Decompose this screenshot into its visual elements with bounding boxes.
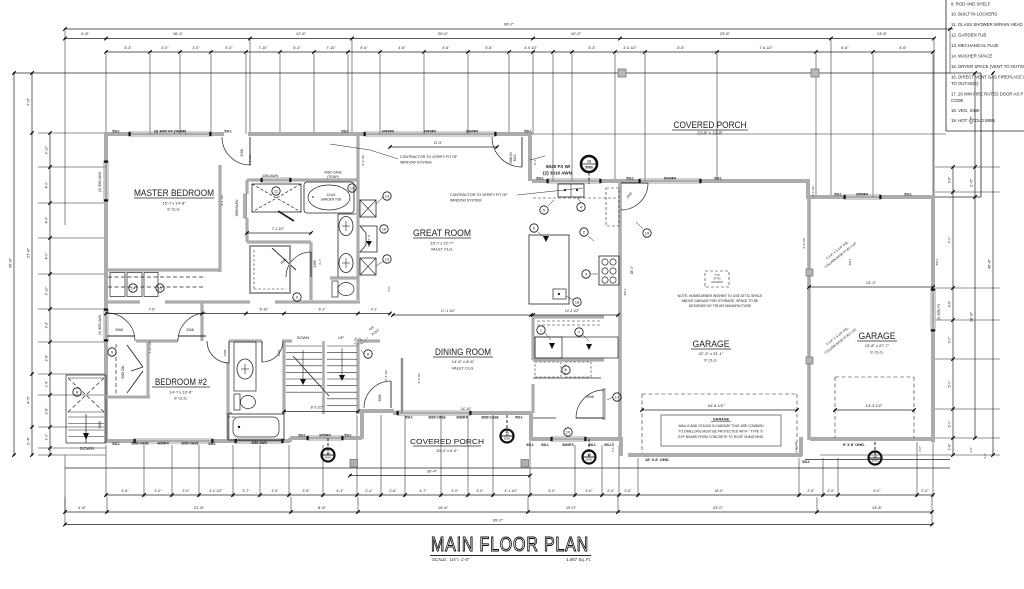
svg-text:24'-8 1/2": 24'-8 1/2" [708,403,725,408]
svg-text:16. DIRECT VENT GAS FIREPLACE: 16. DIRECT VENT GAS FIREPLACE ( [951,75,1024,80]
garage1 door dashed opening [642,393,797,395]
svg-text:9' CLG.: 9' CLG. [870,350,883,355]
svg-text:2468: 2468 [277,349,281,356]
hall dimension row [106,313,390,315]
svg-text:2'-0": 2'-0" [969,178,974,187]
dining south wall with windows [393,411,398,415]
dining dimension row [393,314,531,316]
svg-text:GARAGE: GARAGE [713,418,730,422]
svg-text:5/8-1: 5/8-1 [224,130,232,134]
kitchen callouts [540,206,548,214]
svg-text:13'-8": 13'-8" [877,31,888,36]
door bath2 2468 [261,341,263,362]
svg-text:5060: 5060 [504,437,511,441]
right dimension total [992,73,994,455]
svg-text:4'-1 1/2": 4'-1 1/2" [504,489,518,493]
svg-text:2'-6": 2'-6" [389,489,397,493]
window (3) 3050FX east [930,290,932,330]
svg-text:18'-0": 18'-0" [714,489,724,493]
master bath north wall [247,178,262,181]
stair south wall jog [360,411,364,439]
svg-text:5'-9 1/2": 5'-9 1/2" [361,155,365,166]
svg-text:9'-1 1/2": 9'-1 1/2" [220,195,224,206]
svg-text:9. ROD AND SHELF: 9. ROD AND SHELF [951,2,991,7]
door hall left 3068 [107,335,135,337]
svg-text:13'-3": 13'-3" [866,280,877,285]
right dimension tier 2 [974,73,976,438]
exterior wall top great room [495,132,532,136]
garage2 north wall [808,195,845,199]
svg-text:2868 BARN: 2868 BARN [235,199,239,217]
svg-text:3'-0 1/2": 3'-0 1/2" [623,46,637,50]
master shower 11 [252,184,301,212]
garage apron line [805,459,950,461]
garage wall jog between garage doors [799,437,803,456]
porch post 1 [618,69,626,77]
svg-text:13: 13 [505,432,509,436]
wall entry east jog [528,136,532,181]
svg-text:4050 AWN: 4050 AWN [251,441,267,445]
svg-text:(TEMP): (TEMP) [327,175,339,179]
east exterior wall garage2 [931,195,935,290]
svg-text:8'-3 1/2": 8'-3 1/2" [311,406,324,410]
svg-text:3068: 3068 [240,149,244,157]
svg-text:CONTRACTOR TO VERIFY FIT OF: CONTRACTOR TO VERIFY FIT OF [450,193,508,197]
svg-text:5060: 5060 [325,456,332,460]
svg-text:6'-4": 6'-4" [293,46,301,50]
porch south dimension 30-4 [350,475,530,477]
hose bib stairs [327,438,329,455]
mud door wall [602,388,605,420]
svg-text:19'-6": 19'-6" [438,505,449,510]
garage2 north jog [806,181,810,199]
svg-text:9'-0": 9'-0" [873,489,881,493]
garden tub 12 [304,182,354,213]
bottom dimension tier A [106,494,933,496]
svg-text:2'-0": 2'-0" [921,489,929,493]
svg-text:9' CLG.: 9' CLG. [167,207,180,212]
svg-text:2'-0": 2'-0" [948,420,952,428]
window (3) 3050 AWN west [103,162,105,200]
dining half wall [401,358,404,413]
wall great room west [356,134,359,300]
svg-text:3068: 3068 [186,328,194,332]
svg-text:5/8-1: 5/8-1 [904,193,912,197]
bottom extension lines [105,445,107,497]
svg-text:6'-4 1/2": 6'-4 1/2" [384,370,388,381]
svg-text:13: 13 [873,454,877,458]
mechanical flue 13 [581,156,597,172]
svg-text:7'-10": 7'-10" [258,46,268,50]
notes panel border [945,0,947,131]
svg-text:5060: 5060 [586,458,593,462]
roof overhang line [14,72,981,74]
svg-text:14'-6" x 8'-6": 14'-6" x 8'-6" [452,359,475,364]
laundry callout 17 [613,393,621,401]
svg-text:5'-3": 5'-3" [588,46,596,50]
svg-text:4060 CASE: 4060 CASE [324,171,342,175]
svg-text:3'-5": 3'-5" [302,489,310,493]
svg-text:15'-7 x 14'-8": 15'-7 x 14'-8" [162,201,186,206]
svg-text:21'-8": 21'-8" [194,505,205,510]
svg-text:10'-3 1/2": 10'-3 1/2" [565,309,580,313]
svg-text:12: 12 [350,185,355,190]
svg-text:3'-3": 3'-3" [45,321,49,329]
svg-text:45'-8": 45'-8" [987,258,992,269]
svg-text:TO DWELLING MUST BE PROTECTED: TO DWELLING MUST BE PROTECTED WITH " TYP… [679,430,764,434]
svg-text:15. DRYER SPACE (VENT TO OUTSI: 15. DRYER SPACE (VENT TO OUTSIDE [951,64,1024,69]
svg-text:TO OUTSIDE): TO OUTSIDE) [951,81,979,86]
svg-text:9' CLG.: 9' CLG. [704,358,717,363]
svg-text:4'-6": 4'-6" [121,489,129,493]
stair south wall with window 3050FX [290,436,308,440]
svg-text:3'-6": 3'-6" [948,300,952,308]
svg-text:1'-6": 1'-6" [948,443,952,451]
hose bib mud [588,439,590,457]
svg-text:ABOVE GARAGE FOR STORAGE. SPAC: ABOVE GARAGE FOR STORAGE. SPACE TO BE [682,299,760,303]
svg-text:CONTRACTOR TO VERIFY FIT OF: CONTRACTOR TO VERIFY FIT OF [400,155,458,159]
svg-text:2'-8": 2'-8" [45,407,49,415]
svg-text:MASTER BEDROOM: MASTER BEDROOM [134,188,214,199]
svg-text:5'-6": 5'-6" [360,46,368,50]
svg-text:1'-6": 1'-6" [983,453,987,459]
water closet callout 9 [293,293,301,301]
svg-text:13'-3 1/2": 13'-3 1/2" [866,403,883,408]
west exterior wall [104,132,108,162]
svg-text:2'-6": 2'-6" [533,159,537,165]
svg-text:23'-8": 23'-8" [720,31,731,36]
svg-text:13'-8" x 27'-7": 13'-8" x 27'-7" [865,343,890,348]
door bedroom2 2468 [228,341,230,363]
svg-text:4'-0": 4'-0" [45,216,49,224]
svg-text:5'-0": 5'-0" [948,380,952,388]
bedroom2 north wall [136,339,178,342]
svg-text:5/8-1: 5/8-1 [848,258,852,265]
garage note box [661,415,781,446]
svg-text:13: 13 [326,451,330,455]
svg-text:28'-8": 28'-8" [969,311,974,322]
svg-text:7'-8": 7'-8" [149,308,157,312]
svg-text:VAULT CLG.: VAULT CLG. [431,247,454,252]
svg-text:5/8-1: 5/8-1 [298,434,306,438]
dimension tier 1 total 99'-2" [65,28,953,30]
svg-text:2'-0": 2'-0" [45,433,49,441]
hose bib porch left [506,415,508,436]
window 6040FX porch wall [640,178,700,180]
stair east wall [356,339,359,414]
door hall right 3068 [178,335,206,337]
svg-text:3050FX: 3050FX [856,193,869,197]
svg-text:3'-0": 3'-0" [161,46,169,50]
post 4x4 note [355,338,361,344]
bath2 tub wall [226,412,232,414]
svg-text:5/8-1: 5/8-1 [714,177,722,181]
svg-text:16'-4": 16'-4" [173,31,184,36]
svg-text:2'-1": 2'-1" [371,308,379,312]
svg-text:5'-3": 5'-3" [124,46,132,50]
svg-text:5'-3": 5'-3" [225,46,233,50]
window 6040FX kitchen [548,178,600,180]
svg-text:DOWN: DOWN [297,335,310,340]
master closet shelves [108,276,204,278]
svg-text:5/8-1: 5/8-1 [526,443,534,447]
top extension lines [105,54,107,134]
svg-text:5/8-1: 5/8-1 [536,177,544,181]
svg-text:5/8-1: 5/8-1 [604,443,612,447]
svg-text:99'-2": 99'-2" [504,22,515,27]
mud lockers 1 7 [535,337,618,358]
svg-text:2'-3 1/2": 2'-3 1/2" [794,442,798,452]
bath2 toilet [234,394,240,410]
svg-text:14'-10": 14'-10" [461,407,472,411]
svg-text:UP: UP [338,335,344,340]
svg-text:2'-0": 2'-0" [607,489,615,493]
svg-text:5/8-1: 5/8-1 [112,130,120,134]
svg-text:3050 CASE: 3050 CASE [131,442,149,446]
bath2 vanity [234,342,256,391]
left dimension total 45'-8" [13,73,15,455]
stair west wall [282,341,285,414]
svg-text:2'-0": 2'-0" [969,447,973,453]
svg-text:3'-0": 3'-0" [476,489,484,493]
garage1 door dimension 24-8 [642,409,797,411]
svg-text:19: 19 [645,230,650,235]
garage2 width dimension [809,286,933,288]
svg-text:7'-0": 7'-0" [948,236,952,244]
built-in cabinet 13 upper [360,200,376,217]
svg-text:5/8-1: 5/8-1 [208,442,216,446]
svg-text:10'-0": 10'-0" [566,505,577,510]
svg-text:30'-4": 30'-4" [427,469,438,474]
svg-text:5'-0": 5'-0" [548,489,556,493]
window 5060FX mud [552,436,585,438]
svg-text:NOTE: HOMEOWNER WISHES TO USE: NOTE: HOMEOWNER WISHES TO USE ATTIC SPAC… [678,294,763,298]
svg-text:9' X 8' OHD.: 9' X 8' OHD. [843,442,865,447]
svg-text:CODE: CODE [951,98,964,103]
svg-text:4'-0": 4'-0" [45,252,49,260]
svg-text:3050 CASE: 3050 CASE [181,442,199,446]
svg-text:3050FX: 3050FX [319,434,332,438]
svg-text:MAIN FLOOR PLAN: MAIN FLOOR PLAN [431,534,589,556]
svg-text:(3) 3060 FX (TEMP): (3) 3060 FX (TEMP) [154,130,187,134]
shower door angled [278,211,294,221]
svg-text:3060 CASE: 3060 CASE [428,416,446,420]
master vanity [337,214,339,277]
svg-text:3'-5": 3'-5" [271,489,279,493]
svg-text:5/8-1: 5/8-1 [524,130,532,134]
svg-text:2'-6": 2'-6" [918,446,922,452]
svg-text:5/8-1: 5/8-1 [112,442,120,446]
svg-text:45'-8": 45'-8" [8,257,13,268]
svg-text:14: 14 [131,285,136,290]
svg-text:12'-6": 12'-6" [296,31,307,36]
svg-text:17: 17 [615,394,620,399]
svg-text:3060FX: 3060FX [456,416,468,420]
svg-text:5/8-1: 5/8-1 [834,193,842,197]
svg-text:7'-10": 7'-10" [326,46,336,50]
svg-text:4050FX: 4050FX [157,442,169,446]
svg-text:6040 FX W/: 6040 FX W/ [546,164,571,169]
window 4050 AWN bath tub [236,438,282,440]
svg-text:5060: 5060 [585,166,593,170]
left dimension tier 2 [31,73,33,455]
laundry washer dryer 7 [533,377,601,379]
kitchen dimension row [533,314,618,316]
svg-text:WINDOW SYSTEM: WINDOW SYSTEM [400,161,432,165]
porch south outline [65,467,950,469]
stair dimension row [284,411,358,413]
master toilet room walls [330,276,358,279]
master toilet [332,281,338,297]
svg-text:23'-0": 23'-0" [713,505,724,510]
svg-text:4'-6": 4'-6" [398,46,406,50]
svg-text:3'-0": 3'-0" [182,489,190,493]
dimension tier 3 [106,51,933,53]
svg-text:5060: 5060 [872,459,879,463]
svg-text:5'-6": 5'-6" [485,46,493,50]
door stair hall to porch 3068 [390,381,392,408]
mud laundry south wall [531,437,552,441]
svg-text:6'-1": 6'-1" [319,308,327,312]
svg-text:2'-4": 2'-4" [365,489,373,493]
svg-text:8'-5": 8'-5" [677,46,685,50]
svg-text:23'-8" x 12'-8": 23'-8" x 12'-8" [697,131,723,136]
svg-text:12. GARDEN TUB: 12. GARDEN TUB [951,33,986,38]
bedroom2 south wall jog [288,438,292,442]
mud callout 10 [564,428,572,436]
svg-text:6'-6": 6'-6" [899,46,907,50]
dimension tier 2 [65,38,934,40]
contractor note 3 leader to entry [530,156,545,160]
left dimension tier 3 [49,133,51,455]
svg-text:5/8-1: 5/8-1 [623,288,627,295]
laundry north wall [533,358,604,361]
svg-text:ACCESS: ACCESS [711,280,723,284]
wall between garages [807,199,811,440]
svg-text:15'-7 x 22'-7": 15'-7 x 22'-7" [430,241,454,246]
svg-text:18' X 8' OHD.: 18' X 8' OHD. [645,457,670,462]
svg-text:5/8-1: 5/8-1 [802,460,810,464]
svg-text:5060FX: 5060FX [562,443,574,447]
svg-text:1'-10 1/2": 1'-10 1/2" [148,341,152,354]
door mud to garage 3068 fire rated [621,182,648,184]
svg-text:SCALE : 1/4"= 1'-0": SCALE : 1/4"= 1'-0" [432,557,470,562]
svg-text:2'-3 1/2": 2'-3 1/2" [811,186,815,197]
garage2 south wall [810,437,933,441]
svg-text:13. MECHANICAL FLUE: 13. MECHANICAL FLUE [951,43,998,48]
garage1 south wall [628,453,802,457]
svg-text:DINING ROOM: DINING ROOM [435,347,491,358]
svg-text:27'-8": 27'-8" [26,247,31,258]
svg-text:99'-2": 99'-2" [493,517,504,522]
mud room south jog [619,437,623,456]
pantry dashed shelves [537,320,600,322]
built-in cabinet 13 lower [360,258,376,275]
svg-text:3068: 3068 [98,421,102,428]
bedroom2 south wall with windows [104,439,135,443]
svg-text:16: 16 [382,226,387,231]
svg-text:3060FX: 3060FX [382,130,395,134]
porch interior line [532,133,946,135]
svg-text:4'-0 1/2": 4'-0 1/2" [209,489,223,493]
svg-text:COVERED PORCH: COVERED PORCH [410,437,484,446]
svg-text:5/8-1: 5/8-1 [588,443,596,447]
svg-text:38'-0": 38'-0" [630,265,634,274]
svg-text:(3) 3050 AWN: (3) 3050 AWN [98,171,102,192]
svg-text:GARDEN TUB: GARDEN TUB [321,198,342,202]
svg-text:11. GLASS SHOWER W/RAIN HEAD: 11. GLASS SHOWER W/RAIN HEAD [951,22,1023,27]
svg-text:4068 DBL: 4068 DBL [121,365,125,379]
svg-text:GREAT ROOM: GREAT ROOM [413,228,471,239]
svg-text:2'-4": 2'-4" [26,436,31,445]
hall north wall [106,300,140,303]
attic access dashed [705,271,729,287]
svg-text:GARAGE: GARAGE [859,331,896,342]
svg-text:10'-0": 10'-0" [571,31,582,36]
svg-text:3068: 3068 [378,394,382,401]
right extension lines [935,166,1000,168]
window 3050CASE 4050FX 3050CASE [135,438,212,440]
svg-text:18. VEG. SINK: 18. VEG. SINK [951,108,980,113]
svg-text:5/8-1: 5/8-1 [405,416,413,420]
svg-text:3060FX: 3060FX [466,130,479,134]
svg-text:10. BUILT IN LOCKERS: 10. BUILT IN LOCKERS [951,12,997,17]
svg-text:17'-1 1/2": 17'-1 1/2" [441,309,456,313]
refrigerator dashed [606,188,619,226]
svg-text:3'-0": 3'-0" [192,46,200,50]
svg-text:5/8-1: 5/8-1 [935,258,939,265]
svg-text:WALLS AND CEILING IN GARAGE TH: WALLS AND CEILING IN GARAGE THAT ARE COM… [678,424,764,428]
bottom dimension tier B [65,511,932,513]
svg-text:22'-3" x 31'-1": 22'-3" x 31'-1" [699,351,724,356]
svg-text:14. WASHER SPACE: 14. WASHER SPACE [951,54,992,59]
svg-text:3060 CASE: 3060 CASE [481,416,499,420]
svg-text:(2) 3010 AWN: (2) 3010 AWN [543,171,573,176]
svg-text:7'-1 1/2": 7'-1 1/2" [272,227,285,231]
svg-text:19. HOT 4 COLD BIBB: 19. HOT 4 COLD BIBB [951,118,995,123]
door mud barn 3068 [576,417,604,419]
kitchen sink 4 [558,184,584,197]
svg-text:4'-8": 4'-8" [81,31,90,36]
svg-text:3'-10": 3'-10" [45,286,49,295]
laundry mud west wall [531,317,534,360]
laundry south wall [533,417,556,419]
svg-text:4'-6": 4'-6" [442,46,450,50]
svg-text:3'-0": 3'-0" [387,286,391,292]
svg-text:9' CLG.: 9' CLG. [174,396,187,401]
pantry south wall [533,315,604,318]
window 3050FX garage2 [845,194,880,196]
svg-text:4'-7": 4'-7" [419,489,427,493]
svg-text:2'-6": 2'-6" [807,489,815,493]
svg-text:VAULT CLG.: VAULT CLG. [452,366,475,371]
left extension lines [38,132,106,134]
great room top dimension [390,146,497,148]
svg-text:2468: 2468 [223,349,227,356]
island veg sink 18 [553,289,566,299]
door linen 2668 angled [272,248,296,270]
svg-text:WINDOW SYSTEM: WINDOW SYSTEM [450,199,482,203]
svg-text:14'-7 x 10'-9": 14'-7 x 10'-9" [169,390,193,395]
bedroom2 closet 4068 DBL [147,341,150,397]
svg-text:8'-8": 8'-8" [318,505,327,510]
svg-text:3068: 3068 [586,395,594,399]
svg-text:1'-9": 1'-9" [45,380,49,388]
porch post 2 [811,69,819,77]
fireplace 16 [360,226,377,252]
garage2 door dimension [835,409,914,411]
svg-text:5/8-1: 5/8-1 [341,130,349,134]
